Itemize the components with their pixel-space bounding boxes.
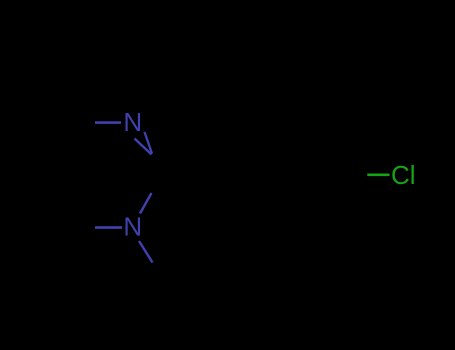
bond C(ring)-Cl	[367, 174, 389, 177]
bond C2H5-N1 (blue half)	[95, 121, 121, 124]
benzene inner bonds	[264, 121, 356, 232]
benzene ring	[222, 112, 366, 237]
bond N2-C (blue half, up-right)	[140, 193, 152, 214]
bond N1=C double bond inner line	[145, 132, 153, 154]
svg-text:N: N	[123, 211, 142, 241]
bond N2-CH3 (blue half, down-right)	[139, 241, 153, 263]
bond N1=C double bond outer line	[135, 139, 152, 155]
bond black half N1=C	[152, 154, 167, 171]
bond C(amidine)-ring	[166, 171, 222, 175]
lower ethyl	[44, 228, 95, 272]
bond C2H5-N2 (blue half)	[95, 226, 122, 229]
svg-text:Cl: Cl	[391, 160, 416, 190]
upper ethyl	[44, 79, 95, 123]
N-methyl black half	[153, 263, 167, 284]
bond black half N2-C	[152, 171, 167, 194]
wire: dark carbon skeleton (nearly invisible on black)	[44, 79, 366, 284]
svg-text:N: N	[123, 107, 142, 137]
